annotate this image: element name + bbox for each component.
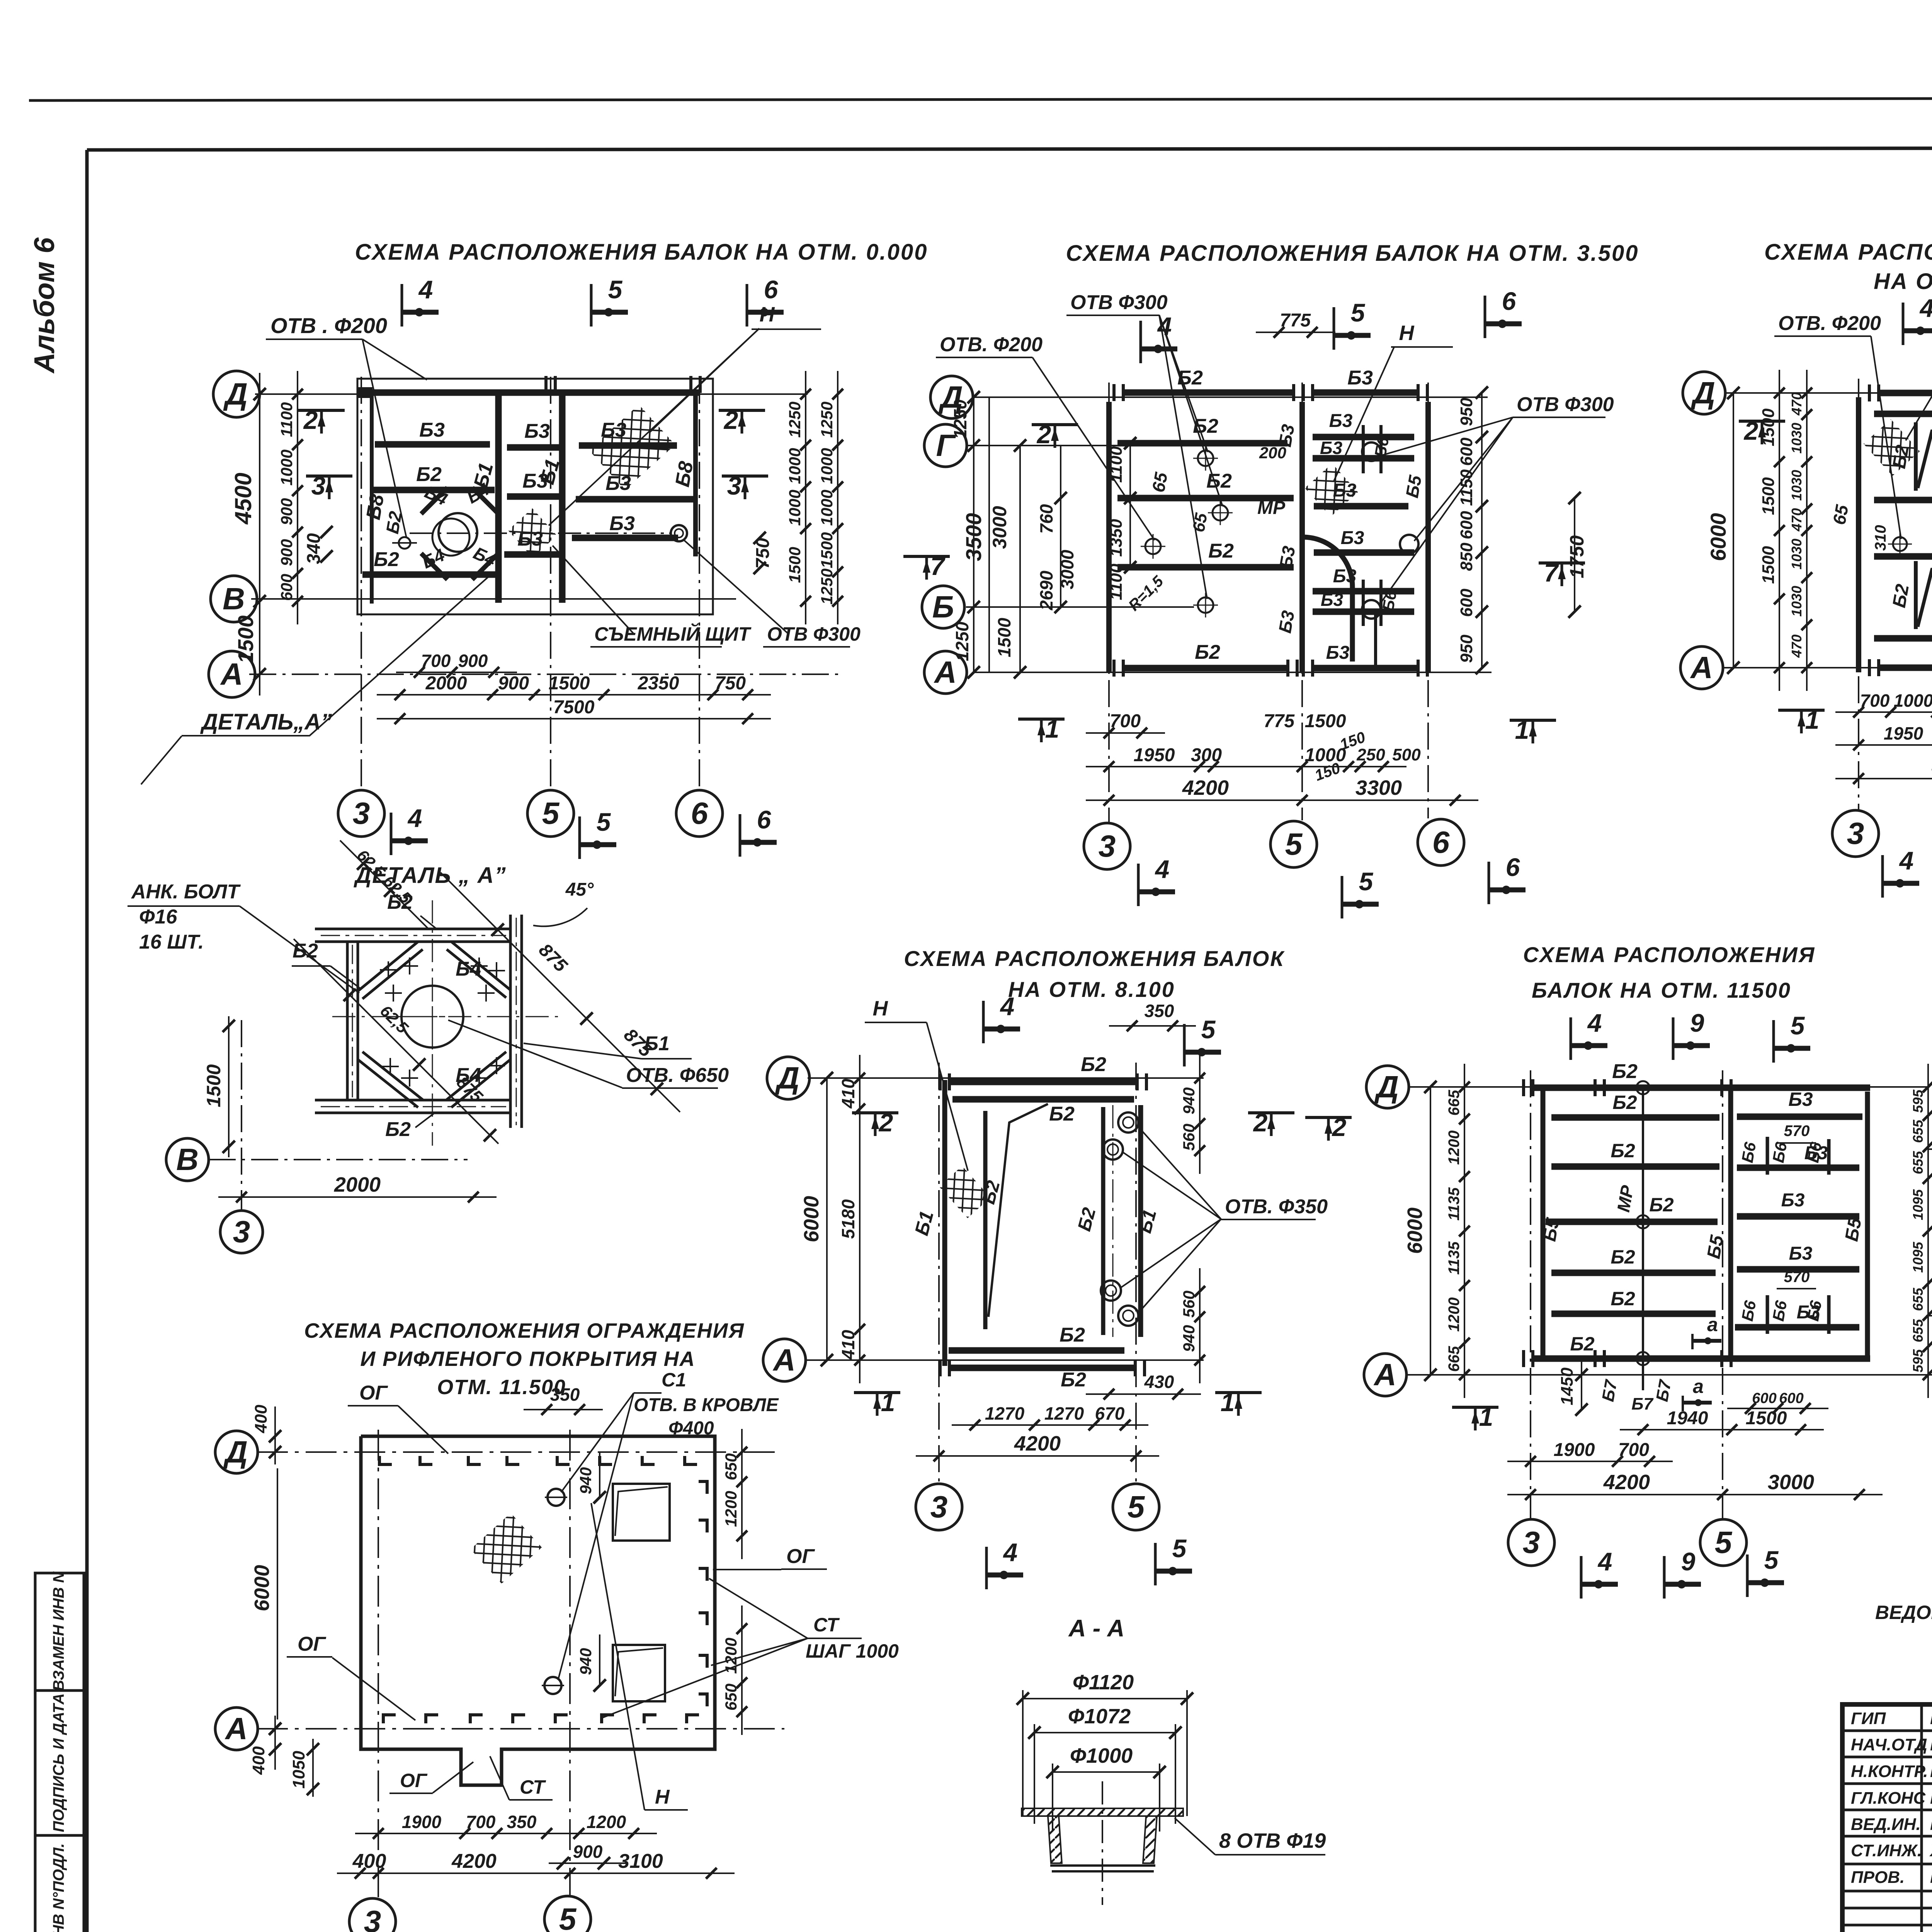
scheme6 axis 3 vertical <box>1530 1070 1531 1519</box>
svg-text:1200: 1200 <box>587 1812 626 1832</box>
svg-text:940: 940 <box>1180 1087 1198 1114</box>
svg-text:6000: 6000 <box>1403 1207 1427 1254</box>
svg-text:500: 500 <box>1392 745 1421 764</box>
svg-text:1500: 1500 <box>786 547 804 583</box>
svg-text:Б6: Б6 <box>1738 1141 1760 1164</box>
svg-text:3: 3 <box>1523 1525 1540 1560</box>
scheme1 axis A line <box>249 673 844 675</box>
scheme5 column circle 3 <box>916 1484 962 1530</box>
svg-text:5: 5 <box>1128 1490 1145 1524</box>
scheme5 axis D line <box>808 1077 1204 1079</box>
svg-text:Б2: Б2 <box>1195 641 1220 663</box>
svg-text:Б6: Б6 <box>1769 1299 1791 1323</box>
svg-text:Б2: Б2 <box>1081 1053 1106 1076</box>
svg-text:1030: 1030 <box>1789 539 1804 570</box>
svg-text:Б3: Б3 <box>1320 438 1343 458</box>
scheme2 axis B circle <box>922 586 964 628</box>
scheme7 right dims <box>741 1429 743 1559</box>
svg-text:600: 600 <box>277 574 296 601</box>
detailA dim 2000 <box>218 1196 497 1198</box>
scheme2 bottom dims row2 <box>1086 799 1478 801</box>
svg-text:Б6: Б6 <box>1804 1299 1825 1323</box>
scheme6 axis D circle <box>1366 1066 1409 1108</box>
svg-text:И РИФЛЕНОГО ПОКРЫТИЯ НА: И РИФЛЕНОГО ПОКРЫТИЯ НА <box>360 1347 695 1371</box>
scheme1 right edge beam B8 <box>693 393 698 556</box>
svg-text:1100: 1100 <box>277 402 296 437</box>
svg-text:1900: 1900 <box>1554 1440 1595 1460</box>
scheme2 left flags <box>1032 423 1078 426</box>
svg-text:3: 3 <box>233 1214 250 1249</box>
svg-text:1950: 1950 <box>1884 723 1923 743</box>
svg-text:1500: 1500 <box>1759 546 1778 584</box>
svg-text:ОТВ. Ф200: ОТВ. Ф200 <box>1778 312 1881 335</box>
svg-text:950: 950 <box>1457 634 1476 663</box>
scheme1 beam B2 bottom left <box>362 571 495 578</box>
scheme6 axis B line right <box>1926 1315 1932 1316</box>
svg-text:Б5: Б5 <box>1841 1216 1866 1243</box>
scheme1 axis 5 line <box>550 377 551 790</box>
svg-text:2690: 2690 <box>1036 570 1056 611</box>
svg-text:ОТМ. 11.500: ОТМ. 11.500 <box>437 1376 566 1399</box>
svg-text:Б3: Б3 <box>1329 411 1353 431</box>
svg-text:65: 65 <box>1829 503 1852 526</box>
svg-text:5: 5 <box>1285 827 1303 861</box>
scheme2 main beam axis6 <box>1425 402 1431 673</box>
svg-text:700: 700 <box>421 651 451 671</box>
scheme6 column circle 5 <box>1700 1519 1747 1566</box>
svg-text:1250: 1250 <box>818 568 836 604</box>
scheme2 axis A line <box>974 672 1492 673</box>
scheme3 bottom dims <box>1835 711 1932 713</box>
scheme3 axis A circle <box>1680 646 1723 689</box>
scheme5 axis A circle <box>763 1339 806 1381</box>
scheme2 beam B2 row4 <box>1117 564 1294 571</box>
scheme2 axis G circle <box>924 424 967 467</box>
svg-text:940: 940 <box>1180 1325 1198 1352</box>
scheme5 column circle 5 <box>1113 1484 1159 1530</box>
svg-text:3: 3 <box>364 1904 381 1932</box>
svg-text:Б3: Б3 <box>517 528 543 550</box>
svg-text:2350: 2350 <box>638 673 679 694</box>
svg-text:В: В <box>176 1142 199 1177</box>
scheme7 bottom dims <box>355 1833 657 1834</box>
scheme1 bottom section flags <box>390 813 393 855</box>
svg-text:1100: 1100 <box>1107 446 1126 483</box>
svg-text:ОТВ. В КРОВЛЕ: ОТВ. В КРОВЛЕ <box>634 1395 779 1415</box>
svg-text:1900: 1900 <box>402 1812 442 1832</box>
scheme7 axis A circle <box>215 1708 258 1750</box>
scheme2 beam B3 row A right <box>1313 665 1418 672</box>
svg-text:1000: 1000 <box>818 448 836 484</box>
detailA bolts crosses <box>380 969 397 971</box>
svg-text:1050: 1050 <box>289 1751 308 1789</box>
scheme1 beam B3 row3 right <box>572 535 678 541</box>
scheme2 B6 cluster verticals lower <box>1362 580 1365 626</box>
scheme7 hatch <box>471 1513 542 1584</box>
svg-text:СХЕМА РАСПОЛОЖЕНИЯ БАЛОК: СХЕМА РАСПОЛОЖЕНИЯ БАЛОК НА ОТМ. 0.000 <box>355 240 928 265</box>
svg-text:Б6: Б6 <box>1804 1141 1825 1164</box>
sectionAA pan left wall <box>1048 1816 1062 1863</box>
svg-text:470: 470 <box>1789 634 1804 658</box>
scheme3 beam B1 low <box>1874 635 1932 642</box>
scheme1 beam B2 row2 left <box>373 487 495 493</box>
svg-text:655: 655 <box>1910 1287 1926 1311</box>
svg-text:950: 950 <box>1457 398 1476 426</box>
svg-text:400: 400 <box>249 1746 268 1775</box>
svg-text:250: 250 <box>1356 745 1385 764</box>
svg-text:5: 5 <box>597 808 611 836</box>
svg-text:2: 2 <box>1036 420 1051 449</box>
svg-text:Б2: Б2 <box>385 1118 411 1141</box>
svg-text:Б3: Б3 <box>1789 1243 1813 1264</box>
svg-text:8 ОТВ Ф19: 8 ОТВ Ф19 <box>1219 1829 1326 1852</box>
svg-text:Б3: Б3 <box>1781 1190 1805 1211</box>
svg-text:850: 850 <box>1457 543 1476 571</box>
svg-text:ОТВ. Ф650: ОТВ. Ф650 <box>626 1064 729 1087</box>
svg-text:2: 2 <box>1253 1108 1268 1137</box>
svg-text:Б3: Б3 <box>1341 528 1364 548</box>
svg-text:Ф1000: Ф1000 <box>1070 1744 1133 1767</box>
scheme5 bottom flags <box>985 1547 988 1589</box>
svg-text:1250: 1250 <box>950 399 970 439</box>
svg-text:1500: 1500 <box>549 673 590 694</box>
svg-text:600: 600 <box>1457 588 1476 617</box>
scheme5 big diagonal <box>988 1104 1048 1317</box>
scheme5 beam B2 top1 <box>951 1079 1136 1085</box>
scheme7 roof holes C1 <box>548 1489 565 1506</box>
svg-text:ПАНКРАТОВА: ПАНКРАТОВА <box>1930 1815 1932 1834</box>
svg-text:1100: 1100 <box>1107 563 1126 600</box>
scheme5 beam B2 top2 <box>952 1096 1134 1103</box>
scheme1 vertical beam B1 left <box>495 393 502 603</box>
svg-text:775: 775 <box>1280 310 1311 331</box>
scheme1 left section flag 2 <box>298 409 345 412</box>
scheme1 slab corner plate <box>359 388 372 397</box>
svg-text:1940: 1940 <box>1667 1408 1708 1429</box>
scheme7 fence brackets top <box>379 1456 392 1464</box>
sectionAA pan flange <box>1022 1808 1183 1816</box>
svg-text:1200: 1200 <box>1446 1298 1463 1332</box>
svg-text:200: 200 <box>1259 444 1286 462</box>
detailA centerlines <box>432 900 433 1146</box>
svg-text:СХЕМА РАСПОЛОЖЕНИЯ БАЛОК: СХЕМА РАСПОЛОЖЕНИЯ БАЛОК <box>1764 240 1932 265</box>
sectionAA pan bottom <box>1050 1864 1155 1867</box>
svg-text:В: В <box>223 582 245 616</box>
svg-text:Б3: Б3 <box>1347 367 1373 389</box>
svg-text:4200: 4200 <box>1603 1471 1650 1494</box>
scheme2 bottom flags <box>1018 718 1065 721</box>
scheme6 B6 verticals <box>1766 1137 1769 1175</box>
svg-text:655: 655 <box>1910 1151 1926 1174</box>
svg-text:700: 700 <box>1110 711 1141 731</box>
scheme6 bottom flags <box>1580 1556 1583 1599</box>
svg-text:700: 700 <box>1860 690 1890 711</box>
svg-text:900: 900 <box>458 651 488 671</box>
scheme1 right dim chain B <box>837 371 838 624</box>
svg-text:С1: С1 <box>662 1369 686 1391</box>
svg-text:7: 7 <box>930 552 946 580</box>
scheme1 beam B3 row1 mid <box>507 444 560 451</box>
scheme5 axis 5 vertical <box>1135 1063 1137 1484</box>
svg-text:Б6: Б6 <box>1769 1141 1791 1164</box>
svg-text:НА ОТМ. 5.800: НА ОТМ. 5.800 <box>1874 269 1932 294</box>
svg-text:Н: Н <box>873 997 888 1020</box>
scheme1 axis V line <box>251 598 736 600</box>
svg-text:1450: 1450 <box>1558 1367 1577 1405</box>
scheme2 axis 6 vertical <box>1427 383 1429 818</box>
scheme5 beam B2 vert left <box>983 1111 988 1329</box>
svg-text:1950: 1950 <box>1134 745 1175 765</box>
sheet top edge line <box>29 98 1932 100</box>
svg-text:Ф1072: Ф1072 <box>1068 1705 1131 1728</box>
svg-text:ОТВ. Ф350: ОТВ. Ф350 <box>1225 1196 1328 1218</box>
svg-text:Д: Д <box>223 1435 248 1469</box>
scheme5 right dims <box>1199 1055 1201 1174</box>
scheme2 main beam axis5 <box>1299 402 1305 673</box>
scheme5 hatch <box>939 1166 990 1218</box>
scheme1 bottom dim chain 0 <box>396 672 517 673</box>
scheme7 column circle 3 <box>349 1898 396 1932</box>
scheme3 beam B2 bottom <box>1880 665 1932 671</box>
svg-text:Б3: Б3 <box>601 419 626 441</box>
title block signatures table <box>1842 1730 1932 1732</box>
scheme2 hatch <box>1305 463 1358 517</box>
svg-text:Д: Д <box>775 1061 799 1095</box>
scheme1 axis 6 line <box>699 377 700 790</box>
scheme1 hatch big <box>589 405 675 490</box>
svg-text:300: 300 <box>1191 745 1222 765</box>
svg-text:Ф16: Ф16 <box>139 906 178 928</box>
svg-text:6: 6 <box>1506 853 1520 881</box>
svg-text:Б8: Б8 <box>671 460 698 489</box>
scheme1 left section flag 3 <box>306 474 352 478</box>
svg-text:560: 560 <box>1180 1291 1198 1318</box>
scheme1 right section flag 2 <box>719 409 765 412</box>
svg-text:3: 3 <box>1099 829 1116 863</box>
scheme3 axis 3 vertical <box>1858 379 1859 811</box>
svg-text:Б2: Б2 <box>1060 1324 1085 1346</box>
svg-text:410: 410 <box>838 1078 858 1109</box>
svg-text:Н: Н <box>1399 321 1415 345</box>
scheme2 right flags <box>1539 561 1585 565</box>
svg-text:ВЗАМЕН ИНВ N: ВЗАМЕН ИНВ N <box>50 1571 67 1691</box>
scheme6 side flags <box>1305 1116 1352 1119</box>
svg-text:1500: 1500 <box>1746 1408 1787 1429</box>
svg-text:РАШЕВСКИЙ: РАШЕВСКИЙ <box>1930 1761 1932 1781</box>
scheme6 beam B2 bottom full <box>1534 1355 1870 1362</box>
svg-text:СЪЕМНЫЙ ЩИТ: СЪЕМНЫЙ ЩИТ <box>594 623 752 645</box>
svg-text:2: 2 <box>1743 417 1759 445</box>
scheme1 slab outline <box>357 379 713 614</box>
svg-text:410: 410 <box>838 1330 858 1360</box>
scheme2 curved beam R1.5 <box>1303 537 1352 587</box>
svg-text:3300: 3300 <box>1355 776 1402 799</box>
svg-text:СХЕМА РАСПОЛОЖЕНИЯ БАЛОК: СХЕМА РАСПОЛОЖЕНИЯ БАЛОК <box>904 946 1285 971</box>
svg-text:1: 1 <box>881 1388 895 1417</box>
svg-text:СТ: СТ <box>520 1776 546 1798</box>
svg-text:ПОДПИСЬ И ДАТА: ПОДПИСЬ И ДАТА <box>50 1693 67 1832</box>
svg-text:ОГ: ОГ <box>298 1633 326 1655</box>
svg-text:5: 5 <box>1715 1525 1733 1560</box>
scheme7 column circle 5 <box>544 1896 591 1932</box>
scheme5 side flags <box>852 1111 898 1114</box>
svg-text:7500: 7500 <box>553 697 595 718</box>
detailA corner brace SE <box>451 1060 510 1107</box>
svg-text:65: 65 <box>1148 470 1171 494</box>
svg-text:900: 900 <box>277 539 296 566</box>
svg-text:МР: МР <box>1257 498 1286 518</box>
svg-text:6: 6 <box>764 275 779 304</box>
svg-text:СХЕМА РАСПОЛОЖЕНИЯ ОГРАЖДЕНИ: СХЕМА РАСПОЛОЖЕНИЯ ОГРАЖДЕНИЯ <box>304 1319 745 1342</box>
scheme2 beam B3 right r3 <box>1314 503 1408 510</box>
svg-text:1500: 1500 <box>994 617 1014 657</box>
svg-text:СХЕМА РАСПОЛОЖЕНИЯ БАЛОК НА: СХЕМА РАСПОЛОЖЕНИЯ БАЛОК НА ОТМ. 3.500 <box>1066 241 1639 266</box>
svg-text:5: 5 <box>1359 867 1374 896</box>
svg-text:1000: 1000 <box>786 490 804 526</box>
svg-text:ГИП: ГИП <box>1851 1709 1886 1728</box>
svg-text:Б2: Б2 <box>1649 1194 1673 1216</box>
side stamp divider 2 <box>35 1834 84 1837</box>
svg-text:5: 5 <box>1791 1011 1805 1040</box>
svg-text:470: 470 <box>1789 508 1804 532</box>
scheme3 bottom flags <box>1881 855 1884 898</box>
svg-text:700: 700 <box>1618 1440 1649 1460</box>
svg-text:Б2: Б2 <box>387 891 413 913</box>
svg-text:595: 595 <box>1910 1349 1926 1372</box>
svg-text:1: 1 <box>1221 1388 1235 1417</box>
svg-text:2: 2 <box>1332 1113 1347 1141</box>
svg-text:А: А <box>1373 1357 1396 1392</box>
svg-text:1350: 1350 <box>1107 519 1126 557</box>
svg-text:РЫБКИНА: РЫБКИНА <box>1930 1735 1932 1754</box>
svg-text:ВЕДОМОСТЬ ЭЛЕМЕНТОВ СМ.: ВЕДОМОСТЬ ЭЛЕМЕНТОВ СМ. ЛИСТ 18. <box>1875 1602 1932 1623</box>
scheme7 axis A line <box>257 1728 784 1730</box>
svg-text:Б7: Б7 <box>1653 1378 1675 1403</box>
detailA right channel <box>509 915 512 1128</box>
svg-text:310: 310 <box>1872 525 1889 551</box>
scheme1 right dim chain A <box>805 371 806 624</box>
svg-text:3100: 3100 <box>618 1850 663 1872</box>
svg-text:1250: 1250 <box>818 401 836 437</box>
scheme1 column circle 5 <box>527 790 574 837</box>
svg-text:Б2: Б2 <box>374 548 399 571</box>
detailA dim 1500 <box>228 1016 230 1157</box>
svg-text:СТ.ИНЖ.: СТ.ИНЖ. <box>1851 1841 1922 1860</box>
scheme1 beam B3 row2 right <box>576 496 694 503</box>
svg-text:Б1: Б1 <box>644 1032 670 1055</box>
svg-text:ШАГ 1000: ШАГ 1000 <box>806 1640 899 1662</box>
detailA corner brace SW <box>358 1060 418 1107</box>
svg-text:560: 560 <box>1180 1124 1198 1151</box>
scheme1 column circle 6 <box>676 790 723 837</box>
svg-text:Б2: Б2 <box>293 940 318 962</box>
svg-text:6000: 6000 <box>250 1565 274 1611</box>
svg-text:Б2: Б2 <box>1206 470 1232 492</box>
svg-text:4: 4 <box>1157 312 1172 340</box>
svg-text:Б7: Б7 <box>1599 1378 1621 1403</box>
svg-text:6: 6 <box>757 805 772 834</box>
detailA diagonal dim line NE <box>440 872 680 1112</box>
scheme1 brace B4 SW <box>421 553 447 580</box>
svg-text:595: 595 <box>1910 1089 1926 1113</box>
svg-text:а: а <box>1707 1314 1718 1335</box>
svg-text:Ф400: Ф400 <box>668 1418 714 1439</box>
scheme6 axis D line <box>1408 1086 1928 1088</box>
scheme5 axis 3 vertical <box>938 1063 940 1484</box>
svg-text:4: 4 <box>1587 1009 1602 1037</box>
scheme2 bottom dims <box>1086 732 1165 734</box>
scheme2 column circle 5 <box>1270 821 1317 867</box>
svg-text:4: 4 <box>1155 855 1170 883</box>
svg-text:1095: 1095 <box>1910 1242 1926 1273</box>
scheme3 top flags <box>1902 303 1905 345</box>
scheme2 beam B2 row2 <box>1117 440 1287 447</box>
svg-text:1500: 1500 <box>203 1064 224 1107</box>
svg-text:350: 350 <box>507 1812 537 1832</box>
svg-text:ОГ: ОГ <box>400 1770 428 1791</box>
svg-text:2000: 2000 <box>425 673 467 694</box>
svg-text:400: 400 <box>352 1850 386 1872</box>
main title block outer box <box>1842 1704 1932 1932</box>
scheme1 beam B3 row3 mid <box>504 551 561 558</box>
scheme5 beam B1 right <box>1138 1105 1143 1337</box>
svg-text:1270: 1270 <box>985 1403 1025 1423</box>
svg-text:940: 940 <box>577 1467 595 1494</box>
svg-text:ОТВ Ф300: ОТВ Ф300 <box>1070 291 1168 314</box>
svg-text:2: 2 <box>878 1108 893 1137</box>
scheme7 rifled sheet 1 <box>613 1484 670 1541</box>
svg-text:Б3: Б3 <box>419 419 445 441</box>
svg-text:3: 3 <box>727 471 742 500</box>
scheme2 dim 775 top <box>1256 332 1335 333</box>
svg-text:СТ: СТ <box>813 1614 840 1636</box>
scheme1 column circle 3 <box>338 790 384 837</box>
scheme7 fence brackets right <box>699 1481 707 1494</box>
svg-text:9: 9 <box>1690 1009 1704 1037</box>
svg-text:900: 900 <box>277 498 296 525</box>
svg-text:а: а <box>1693 1376 1704 1397</box>
svg-text:Б5: Б5 <box>1539 1216 1563 1243</box>
scheme3 axis D circle <box>1683 372 1725 414</box>
svg-text:ИНВ N°ПОДЛ.: ИНВ N°ПОДЛ. <box>50 1843 67 1932</box>
svg-text:4200: 4200 <box>451 1850 497 1872</box>
scheme1 hole otv300 circle <box>671 525 687 541</box>
scheme1 brace B4 NW <box>421 488 447 514</box>
svg-text:Б5: Б5 <box>1703 1233 1728 1260</box>
svg-text:Б3: Б3 <box>1333 480 1357 501</box>
scheme3 beam B2 top <box>1880 390 1932 396</box>
scheme5 top flags <box>982 1001 985 1043</box>
svg-text:4200: 4200 <box>1182 776 1229 799</box>
scheme7 roof outline <box>361 1436 715 1785</box>
svg-text:470: 470 <box>1789 392 1804 416</box>
svg-text:Б3: Б3 <box>1275 609 1298 635</box>
scheme6 axis A circle <box>1364 1354 1406 1396</box>
svg-text:1500: 1500 <box>1305 711 1346 731</box>
scheme5 beam B2 bot1 <box>949 1347 1124 1354</box>
scheme2 axis 5 vertical <box>1301 383 1303 820</box>
scheme7 fence brackets bottom <box>383 1715 396 1723</box>
svg-text:3: 3 <box>930 1490 948 1524</box>
svg-text:4: 4 <box>1000 992 1015 1020</box>
svg-text:Б4: Б4 <box>456 958 481 980</box>
scheme5 beam B2 vert right <box>1101 1107 1105 1335</box>
svg-text:1000: 1000 <box>277 449 296 485</box>
scheme7 rifled sheet 2 <box>613 1645 665 1701</box>
detailA hole otv650 <box>401 986 463 1048</box>
detailA left channel <box>346 942 349 1100</box>
scheme2 beam B2 row A <box>1124 665 1287 672</box>
